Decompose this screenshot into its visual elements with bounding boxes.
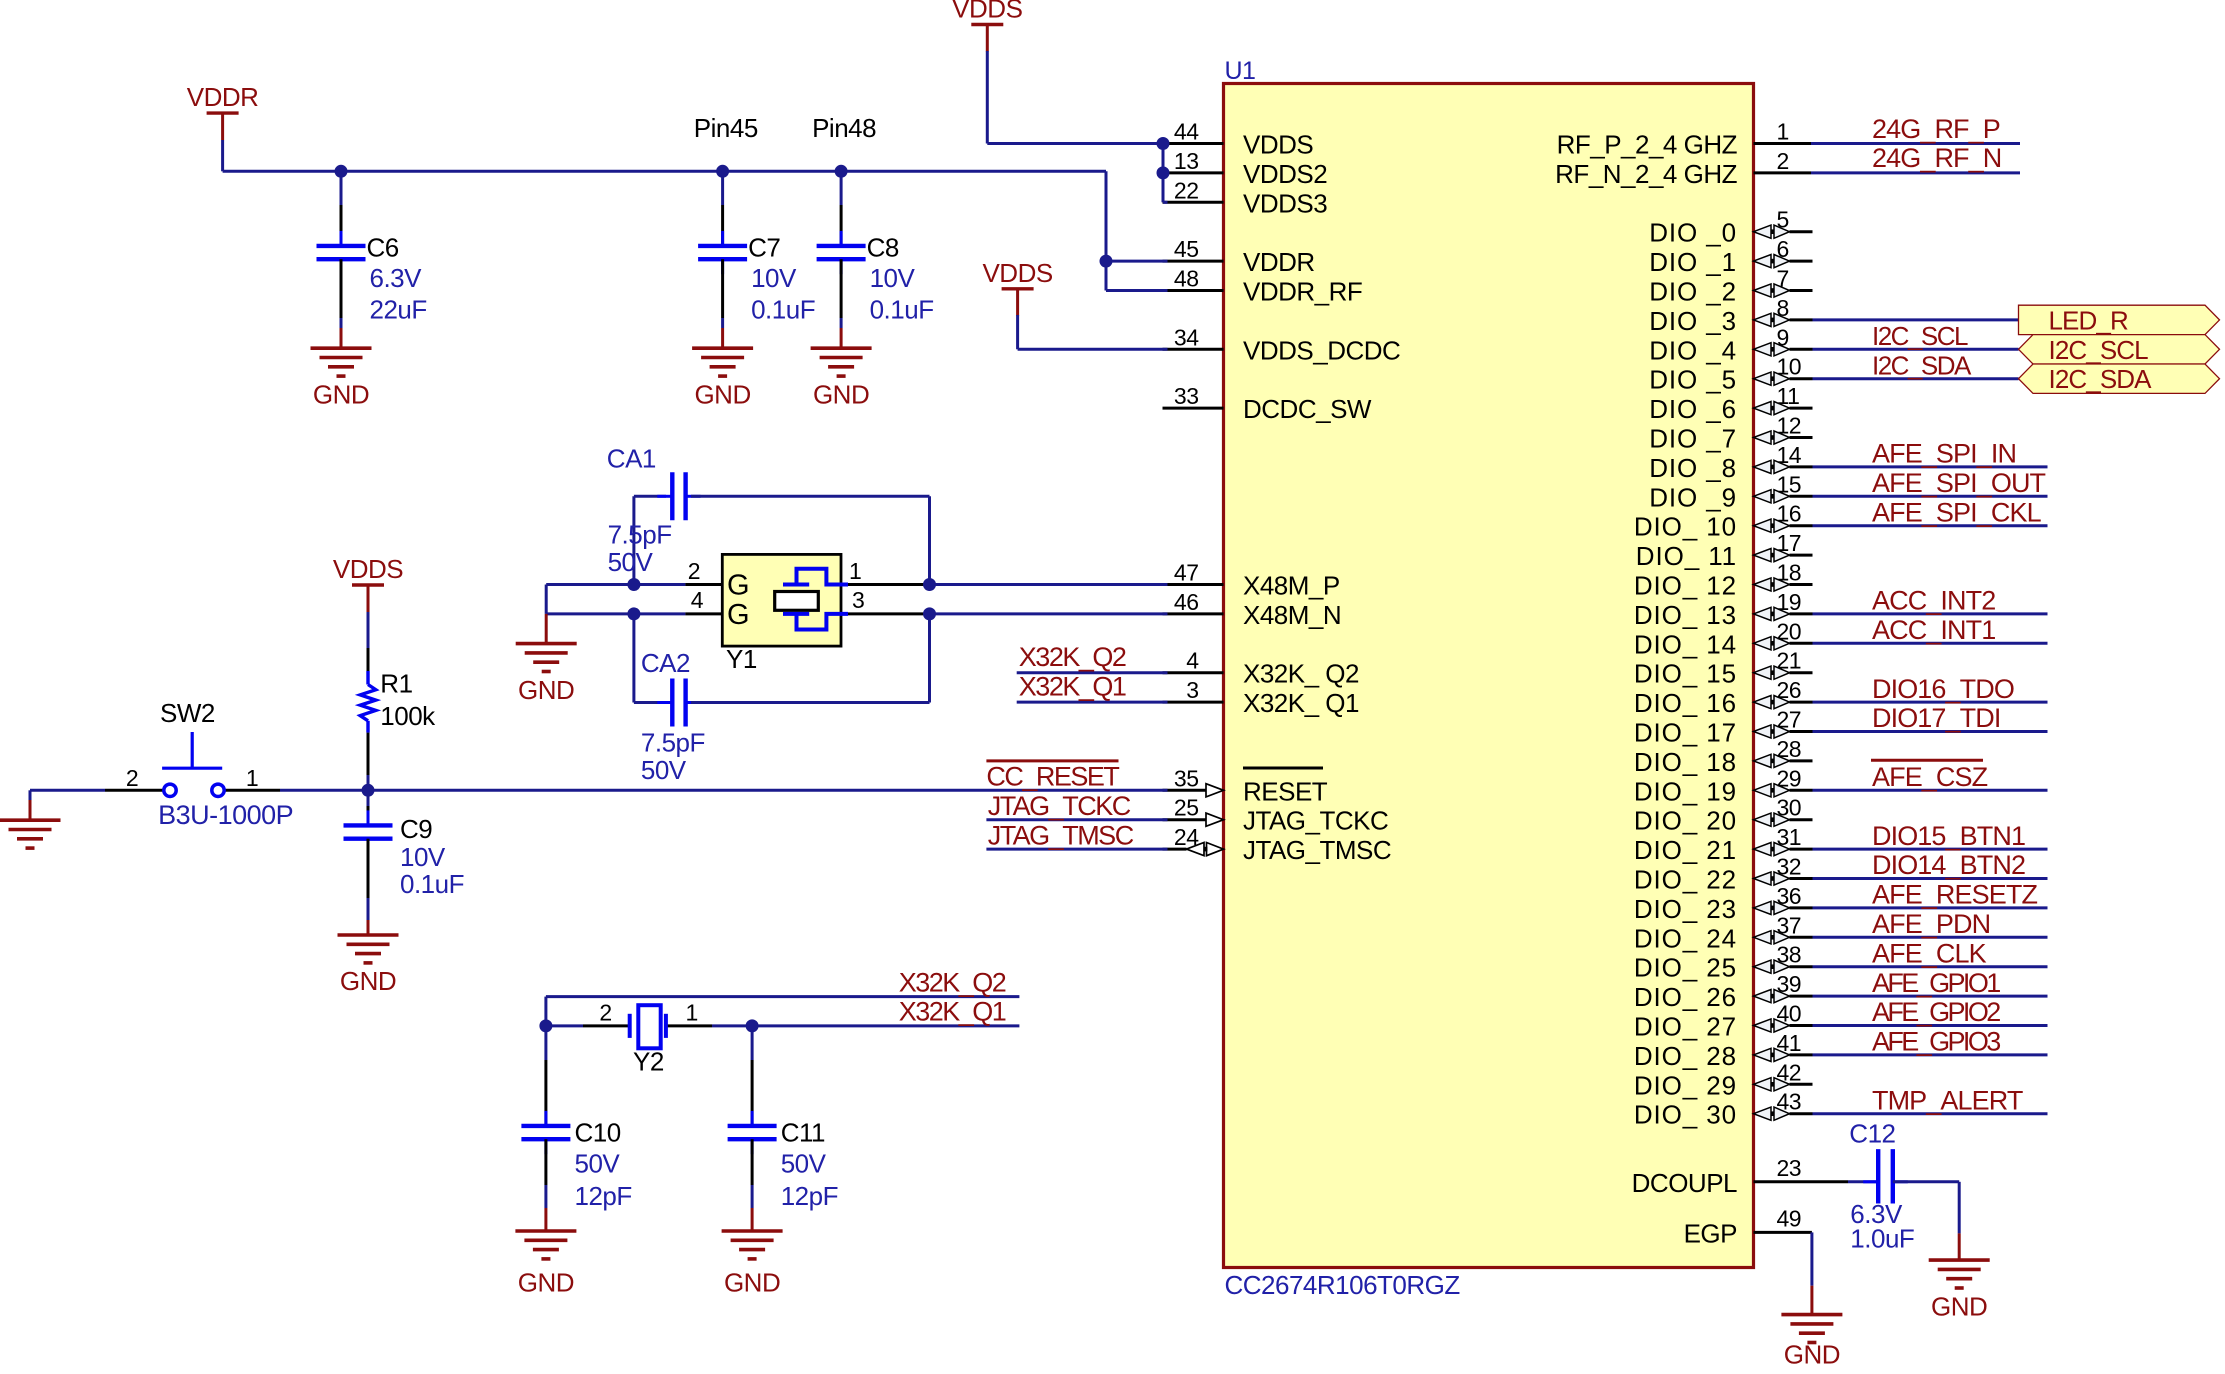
svg-text:X48M_P: X48M_P <box>1243 571 1340 601</box>
svg-text:C10: C10 <box>575 1117 621 1147</box>
svg-text:VDDS: VDDS <box>1243 130 1313 160</box>
svg-text:4: 4 <box>1186 648 1199 674</box>
svg-text:46: 46 <box>1174 589 1199 615</box>
svg-text:GND: GND <box>1931 1292 1987 1322</box>
svg-text:AFE_CLK: AFE_CLK <box>1872 938 1987 968</box>
svg-text:LED_R: LED_R <box>2049 305 2128 335</box>
svg-text:AFE_GPIO2: AFE_GPIO2 <box>1872 997 2000 1027</box>
svg-text:DIO _3: DIO _3 <box>1649 306 1737 336</box>
svg-text:39: 39 <box>1777 971 1802 997</box>
svg-text:25: 25 <box>1174 795 1199 821</box>
svg-text:22: 22 <box>1174 177 1199 203</box>
svg-text:JTAG_TCKC: JTAG_TCKC <box>988 791 1131 821</box>
svg-text:1: 1 <box>849 558 861 584</box>
svg-text:I2C_SDA: I2C_SDA <box>2049 364 2153 394</box>
svg-text:Y1: Y1 <box>726 644 757 674</box>
svg-text:C8: C8 <box>867 232 899 262</box>
svg-text:AFE_GPIO1: AFE_GPIO1 <box>1872 968 2000 998</box>
svg-text:50V: 50V <box>641 755 687 785</box>
svg-text:6: 6 <box>1777 236 1789 262</box>
svg-text:AFE_SPI_IN: AFE_SPI_IN <box>1872 439 2016 469</box>
svg-text:B3U-1000P: B3U-1000P <box>158 800 293 830</box>
svg-text:43: 43 <box>1777 1089 1802 1115</box>
svg-text:1.0uF: 1.0uF <box>1850 1223 1914 1253</box>
svg-text:VDDS: VDDS <box>333 554 403 584</box>
svg-text:7.5pF: 7.5pF <box>608 519 672 549</box>
svg-text:10: 10 <box>1777 354 1802 380</box>
svg-text:30: 30 <box>1777 795 1802 821</box>
svg-text:34: 34 <box>1174 324 1199 350</box>
svg-text:C9: C9 <box>400 814 432 844</box>
svg-text:VDDR: VDDR <box>1243 247 1315 277</box>
svg-text:7: 7 <box>1777 266 1789 292</box>
svg-text:DIO_ 15: DIO_ 15 <box>1634 659 1737 689</box>
svg-text:RF_N_2_4 GHZ: RF_N_2_4 GHZ <box>1555 159 1737 189</box>
svg-text:TMP_ALERT: TMP_ALERT <box>1872 1085 2023 1115</box>
svg-text:24G_RF_P: 24G_RF_P <box>1872 114 2000 144</box>
svg-text:49: 49 <box>1777 1205 1802 1231</box>
svg-text:VDDS_DCDC: VDDS_DCDC <box>1243 335 1400 365</box>
svg-text:CA2: CA2 <box>641 648 690 678</box>
svg-text:DIO_ 10: DIO_ 10 <box>1634 512 1737 542</box>
svg-text:50V: 50V <box>575 1148 621 1178</box>
svg-text:CC2674R106T0RGZ: CC2674R106T0RGZ <box>1225 1270 1461 1300</box>
svg-text:SW2: SW2 <box>160 698 215 728</box>
svg-text:C11: C11 <box>781 1117 825 1147</box>
svg-text:GND: GND <box>813 380 869 410</box>
svg-text:GND: GND <box>518 675 574 705</box>
svg-text:15: 15 <box>1777 471 1802 497</box>
svg-text:DIO_ 27: DIO_ 27 <box>1634 1012 1737 1042</box>
svg-text:VDDS3: VDDS3 <box>1243 188 1327 218</box>
svg-text:1: 1 <box>686 1000 698 1026</box>
svg-text:50V: 50V <box>608 547 654 577</box>
svg-text:DIO _9: DIO _9 <box>1649 482 1737 512</box>
svg-text:10V: 10V <box>751 263 797 293</box>
svg-text:GND: GND <box>694 380 750 410</box>
svg-text:GND: GND <box>340 966 396 996</box>
svg-text:CC_RESET: CC_RESET <box>986 762 1119 792</box>
svg-text:DIO_ 28: DIO_ 28 <box>1634 1041 1737 1071</box>
svg-text:7.5pF: 7.5pF <box>641 727 705 757</box>
svg-text:35: 35 <box>1174 765 1199 791</box>
svg-text:G: G <box>727 570 749 602</box>
svg-text:ACC_INT2: ACC_INT2 <box>1872 586 1995 616</box>
svg-text:R1: R1 <box>380 669 412 699</box>
svg-text:AFE_RESETZ: AFE_RESETZ <box>1872 880 2037 910</box>
svg-text:5: 5 <box>1777 207 1789 233</box>
svg-text:1: 1 <box>1777 119 1789 145</box>
svg-text:2: 2 <box>599 1000 611 1026</box>
svg-text:19: 19 <box>1777 589 1802 615</box>
svg-text:DIO_ 29: DIO_ 29 <box>1634 1070 1737 1100</box>
svg-text:Pin45: Pin45 <box>694 113 758 143</box>
svg-text:32: 32 <box>1777 854 1802 880</box>
svg-text:11: 11 <box>1777 383 1800 409</box>
svg-text:GND: GND <box>1784 1340 1840 1370</box>
svg-text:I2C_SCL: I2C_SCL <box>2049 335 2149 365</box>
svg-text:2: 2 <box>688 558 700 584</box>
svg-text:DIO_ 19: DIO_ 19 <box>1634 776 1737 806</box>
svg-text:14: 14 <box>1777 442 1802 468</box>
svg-text:ACC_INT1: ACC_INT1 <box>1872 615 1995 645</box>
svg-text:0.1uF: 0.1uF <box>870 294 934 324</box>
svg-text:X32K_Q1: X32K_Q1 <box>899 997 1006 1027</box>
svg-text:X32K_Q2: X32K_Q2 <box>1019 642 1126 672</box>
svg-text:DIO_ 26: DIO_ 26 <box>1634 982 1737 1012</box>
svg-text:100k: 100k <box>380 701 436 731</box>
svg-text:JTAG_TCKC: JTAG_TCKC <box>1243 806 1388 836</box>
svg-text:DIO _4: DIO _4 <box>1649 335 1737 365</box>
svg-text:AFE_GPIO3: AFE_GPIO3 <box>1872 1027 2000 1057</box>
svg-text:0.1uF: 0.1uF <box>400 869 464 899</box>
svg-text:DIO_ 14: DIO_ 14 <box>1634 629 1737 659</box>
svg-text:X48M_N: X48M_N <box>1243 600 1341 630</box>
svg-text:DIO _0: DIO _0 <box>1649 218 1737 248</box>
svg-text:CA1: CA1 <box>607 444 656 474</box>
svg-text:I2C_SCL: I2C_SCL <box>1872 321 1968 351</box>
svg-text:AFE_CSZ: AFE_CSZ <box>1872 762 1988 792</box>
svg-text:DIO_ 25: DIO_ 25 <box>1634 953 1737 983</box>
svg-text:50V: 50V <box>781 1148 827 1178</box>
svg-text:3: 3 <box>852 587 864 613</box>
svg-text:DIO15_BTN1: DIO15_BTN1 <box>1872 821 2025 851</box>
svg-text:DIO _8: DIO _8 <box>1649 453 1737 483</box>
svg-text:24G_RF_N: 24G_RF_N <box>1872 143 2001 173</box>
svg-text:3: 3 <box>1186 677 1198 703</box>
svg-text:RESET: RESET <box>1243 776 1328 806</box>
svg-text:40: 40 <box>1777 1001 1802 1027</box>
svg-text:DIO_ 24: DIO_ 24 <box>1634 923 1737 953</box>
svg-text:DIO_ 20: DIO_ 20 <box>1634 806 1737 836</box>
svg-text:31: 31 <box>1777 824 1802 850</box>
svg-text:45: 45 <box>1174 236 1199 262</box>
svg-text:DIO_ 22: DIO_ 22 <box>1634 865 1737 895</box>
svg-text:9: 9 <box>1777 324 1789 350</box>
svg-text:AFE_PDN: AFE_PDN <box>1872 909 1990 939</box>
svg-text:24: 24 <box>1174 824 1199 850</box>
svg-text:DIO_ 16: DIO_ 16 <box>1634 688 1737 718</box>
svg-text:G: G <box>727 599 749 631</box>
svg-text:GND: GND <box>724 1267 780 1297</box>
svg-text:26: 26 <box>1777 677 1802 703</box>
svg-text:4: 4 <box>691 587 704 613</box>
svg-text:C12: C12 <box>1849 1119 1895 1149</box>
svg-text:JTAG_TMSC: JTAG_TMSC <box>1243 835 1391 865</box>
svg-text:DIO_ 21: DIO_ 21 <box>1634 835 1737 865</box>
svg-text:47: 47 <box>1174 560 1199 586</box>
svg-text:DIO_ 11: DIO_ 11 <box>1636 541 1737 571</box>
svg-text:C6: C6 <box>367 232 399 262</box>
svg-text:Pin48: Pin48 <box>812 113 876 143</box>
svg-text:48: 48 <box>1174 266 1199 292</box>
svg-text:DIO17_TDI: DIO17_TDI <box>1872 703 2000 733</box>
svg-text:20: 20 <box>1777 618 1802 644</box>
svg-text:DIO_ 18: DIO_ 18 <box>1634 747 1737 777</box>
svg-text:DIO_ 30: DIO_ 30 <box>1634 1100 1737 1130</box>
svg-text:10V: 10V <box>870 263 916 293</box>
svg-text:DIO _2: DIO _2 <box>1649 277 1737 307</box>
svg-text:2: 2 <box>126 765 138 791</box>
svg-text:DIO _7: DIO _7 <box>1649 424 1737 454</box>
svg-text:VDDR: VDDR <box>187 82 259 112</box>
svg-text:DCDC_SW: DCDC_SW <box>1243 394 1372 424</box>
svg-text:JTAG_TMSC: JTAG_TMSC <box>988 820 1134 850</box>
svg-text:Y2: Y2 <box>633 1047 664 1077</box>
svg-text:21: 21 <box>1777 648 1802 674</box>
svg-text:DIO_ 12: DIO_ 12 <box>1634 571 1737 601</box>
svg-text:AFE_SPI_CKL: AFE_SPI_CKL <box>1872 497 2042 527</box>
svg-text:27: 27 <box>1777 707 1802 733</box>
svg-text:38: 38 <box>1777 942 1802 968</box>
svg-text:12: 12 <box>1777 413 1802 439</box>
svg-text:DIO _6: DIO _6 <box>1649 394 1737 424</box>
svg-text:DIO_ 13: DIO_ 13 <box>1634 600 1737 630</box>
svg-text:X32K_Q1: X32K_Q1 <box>1019 671 1126 701</box>
svg-text:DCOUPL: DCOUPL <box>1632 1168 1737 1198</box>
svg-text:17: 17 <box>1777 530 1802 556</box>
svg-text:DIO _1: DIO _1 <box>1649 247 1737 277</box>
svg-text:DIO_ 23: DIO_ 23 <box>1634 894 1737 924</box>
svg-text:6.3V: 6.3V <box>370 263 423 293</box>
svg-text:2: 2 <box>1777 148 1789 174</box>
svg-text:29: 29 <box>1777 765 1802 791</box>
svg-text:22uF: 22uF <box>370 294 427 324</box>
svg-text:28: 28 <box>1777 736 1802 762</box>
svg-text:C7: C7 <box>748 232 780 262</box>
svg-text:23: 23 <box>1777 1155 1802 1181</box>
svg-text:I2C_SDA: I2C_SDA <box>1872 350 1972 380</box>
svg-text:12pF: 12pF <box>781 1181 838 1211</box>
svg-text:36: 36 <box>1777 883 1802 909</box>
svg-text:42: 42 <box>1777 1059 1802 1085</box>
svg-text:EGP: EGP <box>1684 1218 1737 1248</box>
svg-text:18: 18 <box>1777 560 1802 586</box>
svg-text:0.1uF: 0.1uF <box>751 294 815 324</box>
svg-text:DIO_ 17: DIO_ 17 <box>1634 718 1737 748</box>
svg-text:RF_P_2_4 GHZ: RF_P_2_4 GHZ <box>1557 130 1738 160</box>
svg-text:AFE_SPI_OUT: AFE_SPI_OUT <box>1872 468 2046 498</box>
svg-text:VDDS2: VDDS2 <box>1243 159 1327 189</box>
svg-text:X32K_ Q1: X32K_ Q1 <box>1243 688 1359 718</box>
svg-text:GND: GND <box>518 1267 574 1297</box>
svg-text:10V: 10V <box>400 842 446 872</box>
svg-text:41: 41 <box>1777 1030 1802 1056</box>
svg-text:X32K_ Q2: X32K_ Q2 <box>1243 659 1359 689</box>
svg-text:33: 33 <box>1174 383 1199 409</box>
svg-text:8: 8 <box>1777 295 1789 321</box>
svg-text:DIO16_TDO: DIO16_TDO <box>1872 674 2014 704</box>
svg-text:VDDS: VDDS <box>982 258 1052 288</box>
svg-text:12pF: 12pF <box>575 1181 632 1211</box>
svg-text:16: 16 <box>1777 501 1802 527</box>
svg-text:1: 1 <box>246 765 258 791</box>
svg-text:37: 37 <box>1777 912 1802 938</box>
svg-text:VDDR_RF: VDDR_RF <box>1243 277 1362 307</box>
svg-text:VDDS: VDDS <box>952 0 1022 24</box>
svg-text:X32K_Q2: X32K_Q2 <box>899 967 1006 997</box>
svg-text:DIO _5: DIO _5 <box>1649 365 1737 395</box>
svg-text:44: 44 <box>1174 119 1199 145</box>
svg-text:DIO14_BTN2: DIO14_BTN2 <box>1872 850 2025 880</box>
svg-text:GND: GND <box>313 380 369 410</box>
svg-text:13: 13 <box>1174 148 1199 174</box>
svg-text:U1: U1 <box>1225 57 1256 85</box>
